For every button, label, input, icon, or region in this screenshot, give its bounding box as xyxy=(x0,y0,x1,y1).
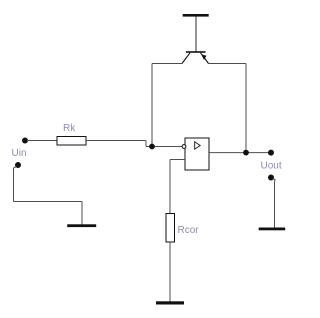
resistor Rk xyxy=(57,137,86,146)
wire Uin to Rk xyxy=(27,140,57,142)
wire base stem from rail to Q1 xyxy=(195,17,197,52)
wire left ground stem xyxy=(81,202,83,225)
wire Q1 left lead horizontal xyxy=(152,63,182,65)
svg-text:Rk: Rk xyxy=(63,123,76,134)
transistor Q1 emitter arrow xyxy=(201,54,206,60)
transistor Q1 collector diagonal xyxy=(182,53,190,64)
svg-text:Uin: Uin xyxy=(12,148,27,159)
wire op-amp noninverting input horizontal xyxy=(170,159,185,161)
wire Q1 left lead vertical down to inverting node xyxy=(151,64,153,147)
resistor Rcor xyxy=(166,214,175,243)
wire down to right ground xyxy=(274,183,276,228)
node junction at inverting input xyxy=(149,144,155,150)
wire op-amp output xyxy=(209,152,269,154)
transistor Q1 emitter diagonal xyxy=(201,53,209,64)
op-amp U1 triangle mark xyxy=(195,142,201,149)
ground bottom bar xyxy=(156,301,184,304)
svg-text:Uout: Uout xyxy=(261,161,282,172)
svg-text:Rcor: Rcor xyxy=(178,225,200,236)
op-amp U1 inverting input circle xyxy=(182,145,186,149)
wire bend to op-amp inverting input xyxy=(146,146,183,148)
ground left bar xyxy=(67,224,96,227)
terminal Uin upper pin dot xyxy=(22,138,28,144)
terminal Uin lower pin dot xyxy=(15,162,21,168)
wire Rk to bend xyxy=(86,140,146,142)
wire horizontal to left ground stem xyxy=(14,201,83,203)
transistor Q1 (PNP) base bar xyxy=(186,51,206,53)
ground right bar xyxy=(259,228,286,231)
node junction at output xyxy=(243,150,249,156)
power rail +V bar xyxy=(183,14,209,17)
terminal Uout upper pin dot xyxy=(268,150,274,156)
wire Q1 right lead horizontal xyxy=(209,63,247,65)
wire hook from lower Uin pin xyxy=(14,167,17,202)
op-amp U1 body xyxy=(185,138,209,170)
wire bend down xyxy=(145,141,147,147)
wire Rcor to bottom ground xyxy=(169,242,171,302)
wire hook from lower Uout pin xyxy=(273,179,276,184)
wire noninverting input down to Rcor xyxy=(169,160,171,214)
terminal Uout lower pin dot xyxy=(268,175,274,181)
wire Q1 right lead vertical down to output node xyxy=(245,64,247,153)
